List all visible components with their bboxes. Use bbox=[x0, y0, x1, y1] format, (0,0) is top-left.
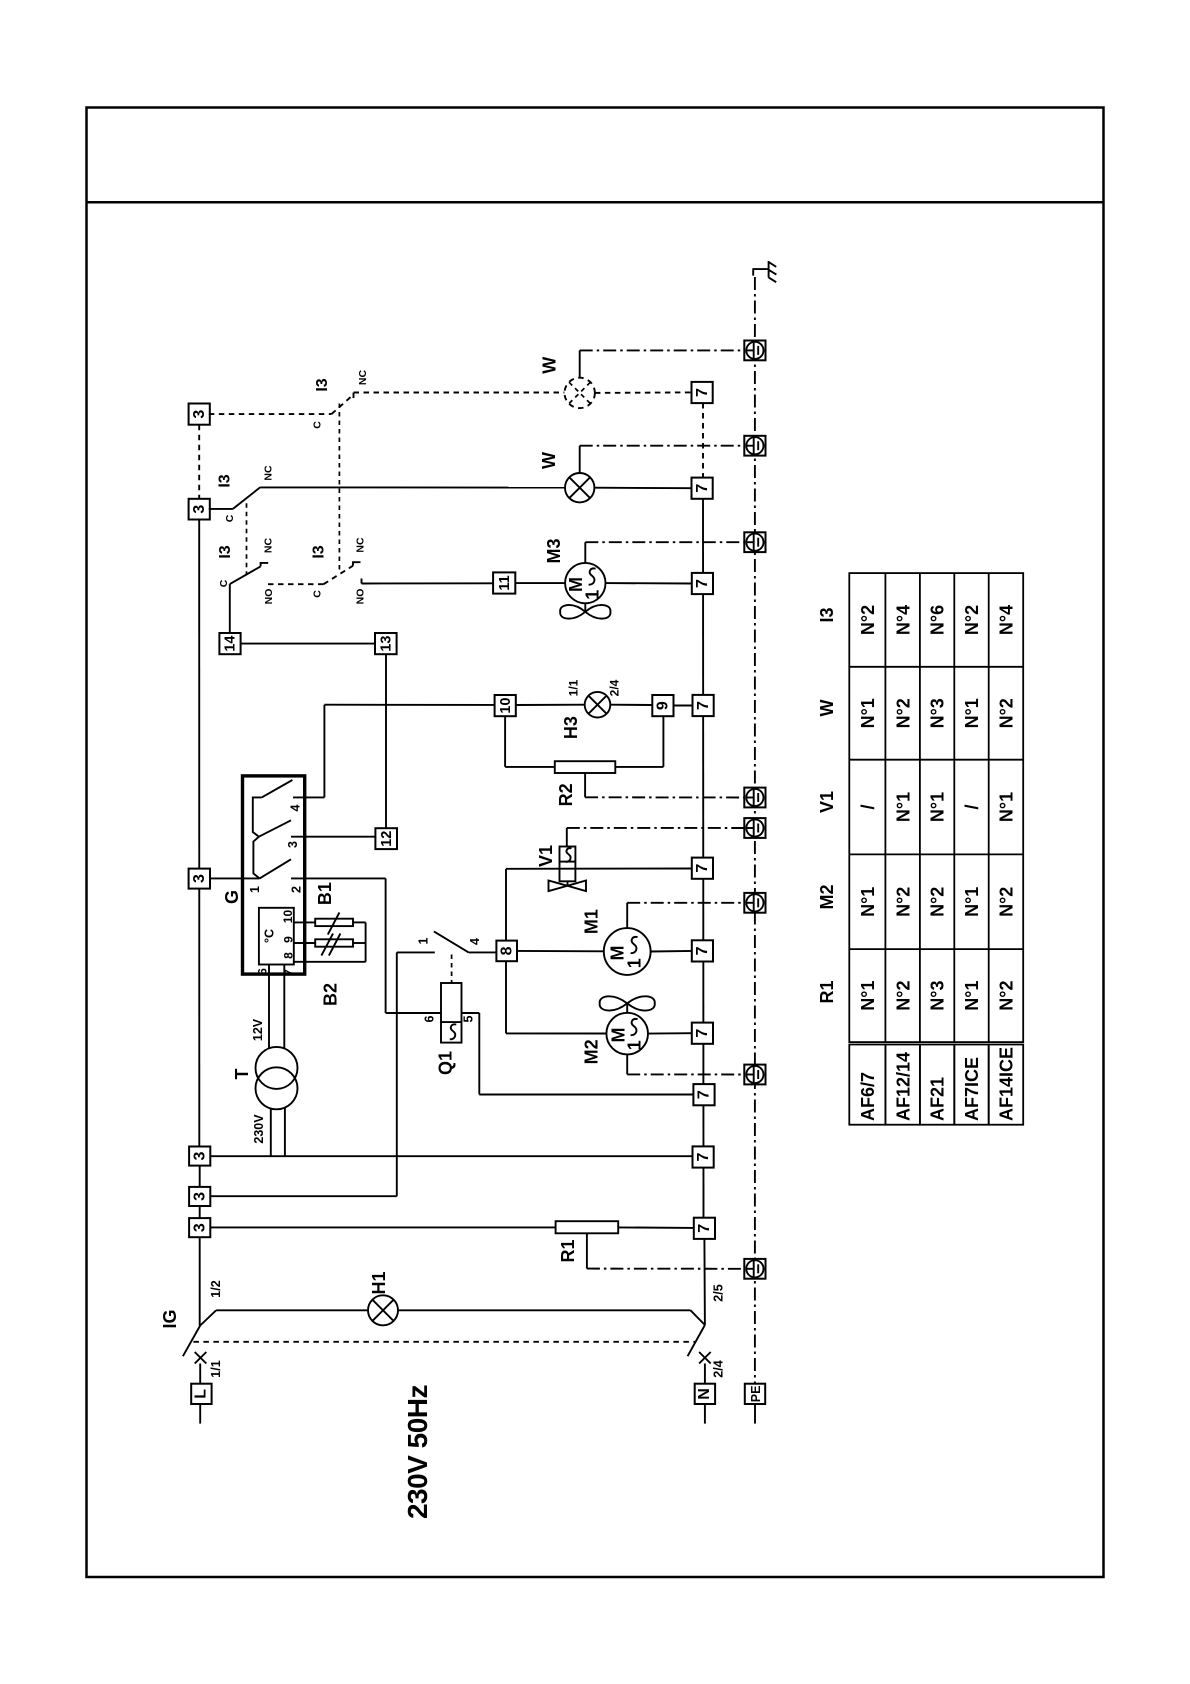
earth terminal b bbox=[744, 436, 765, 456]
svg-text:NC: NC bbox=[263, 538, 275, 554]
wire pin 10 to probe B1 bbox=[294, 921, 315, 923]
svg-text:W: W bbox=[539, 452, 559, 469]
svg-text:C: C bbox=[312, 590, 324, 598]
svg-text:13: 13 bbox=[379, 636, 395, 652]
svg-text:N°1: N°1 bbox=[928, 792, 948, 822]
node 3 box a bbox=[189, 404, 210, 425]
relay Q1 contact lead 1 bbox=[397, 951, 435, 953]
svg-text:I3: I3 bbox=[817, 607, 837, 622]
svg-text:230V 50Hz: 230V 50Hz bbox=[402, 1385, 433, 1519]
svg-text:3: 3 bbox=[191, 1192, 208, 1201]
wire resistor R1 to earth bbox=[587, 1233, 744, 1269]
wire pin 9 to probe B2 bbox=[294, 942, 315, 944]
svg-text:Q1: Q1 bbox=[436, 1051, 456, 1075]
controller G relay contact to pin 2 bbox=[260, 859, 291, 878]
wire relay Q1 pin 5 to node 7 bbox=[462, 1013, 694, 1095]
node 7 box d bbox=[693, 695, 714, 716]
svg-text:1/2: 1/2 bbox=[209, 1280, 223, 1297]
svg-text:C: C bbox=[312, 421, 324, 429]
wire node 13 to node 12 bbox=[385, 654, 387, 828]
wire node3d to transformer and N rail bbox=[210, 1155, 692, 1157]
wire node 10 to resistor R2 bbox=[505, 716, 555, 767]
svg-text:N°3: N°3 bbox=[928, 980, 948, 1010]
node 14 box bbox=[219, 633, 240, 654]
relay Q1 mechanical link bbox=[451, 955, 453, 984]
wire N rail lower segment bbox=[703, 1239, 706, 1325]
valve V1 body bbox=[549, 881, 587, 892]
earth terminal a bbox=[744, 341, 765, 361]
svg-text:3: 3 bbox=[286, 841, 300, 848]
wire resistor R2 to node 9 bbox=[615, 716, 663, 767]
svg-text:11: 11 bbox=[497, 575, 513, 590]
svg-text:2: 2 bbox=[290, 886, 304, 893]
svg-text:N°2: N°2 bbox=[962, 605, 982, 635]
thermostat contact I3 c blade bbox=[230, 566, 261, 584]
svg-text:N°1: N°1 bbox=[962, 980, 982, 1010]
svg-text:NO: NO bbox=[354, 589, 366, 605]
earth terminal g bbox=[744, 1065, 765, 1085]
node 7 box b bbox=[692, 478, 713, 499]
node 8 box bbox=[496, 941, 517, 962]
node 7 box a bbox=[692, 382, 713, 403]
svg-text:N°1: N°1 bbox=[858, 887, 878, 917]
thermostat contact I3 a (dashed) lead C bbox=[209, 413, 332, 415]
svg-text:6: 6 bbox=[423, 1015, 437, 1022]
transformer T bbox=[256, 1047, 298, 1109]
svg-text:N°2: N°2 bbox=[893, 887, 913, 917]
svg-text:9: 9 bbox=[282, 936, 296, 943]
earth terminal e bbox=[744, 818, 765, 838]
lamp W (dashed option) bbox=[565, 378, 595, 408]
svg-text:AF6/7: AF6/7 bbox=[858, 1072, 878, 1121]
wire motor M3 to earth bbox=[585, 542, 744, 563]
switch IG coupling dashed link bbox=[193, 1341, 696, 1343]
table row AF6/7 bbox=[858, 605, 878, 1121]
svg-text:1: 1 bbox=[625, 958, 645, 968]
node 3 box e bbox=[189, 1187, 210, 1206]
table row AF7ICE bbox=[962, 605, 982, 1121]
svg-text:N°2: N°2 bbox=[997, 980, 1017, 1010]
svg-text:1: 1 bbox=[416, 937, 430, 944]
wire node 9 to node 7 bbox=[674, 705, 693, 707]
wire left rail lower segment bbox=[199, 1166, 201, 1326]
svg-text:3: 3 bbox=[191, 1223, 208, 1232]
svg-text:PE: PE bbox=[749, 1386, 763, 1403]
svg-text:C: C bbox=[218, 579, 230, 587]
wire lamp W to node 7 bbox=[594, 487, 691, 490]
svg-text:N°1: N°1 bbox=[997, 792, 1017, 822]
svg-text:M1: M1 bbox=[581, 909, 601, 934]
svg-text:7: 7 bbox=[694, 579, 711, 588]
node 7 box e bbox=[692, 858, 713, 879]
wire lamp W to earth bbox=[580, 446, 745, 473]
switch IG pole 2 contact cross bbox=[699, 1352, 711, 1364]
node 3 box c bbox=[189, 869, 210, 889]
wire controller G pin 6 to transformer bbox=[268, 965, 270, 1049]
wire probe B2 to common bbox=[353, 942, 366, 944]
svg-text:12: 12 bbox=[379, 831, 395, 847]
node 3 box b bbox=[189, 499, 210, 520]
svg-text:NC: NC bbox=[263, 465, 275, 481]
table row AF21 bbox=[928, 605, 948, 1121]
thermostat contact I3 c NC stub bbox=[261, 563, 269, 567]
svg-text:10: 10 bbox=[498, 698, 514, 714]
wire N rail dashed segment bbox=[702, 403, 704, 478]
wire probe B1 to common bbox=[353, 921, 366, 923]
svg-text:1: 1 bbox=[625, 1040, 645, 1050]
svg-text:1/1: 1/1 bbox=[566, 679, 580, 696]
svg-text:8: 8 bbox=[282, 952, 296, 959]
svg-text:2/5: 2/5 bbox=[712, 1284, 726, 1301]
wire node3f to resistor R1 bbox=[210, 1226, 555, 1228]
svg-text:N°6: N°6 bbox=[928, 605, 948, 635]
svg-text:1: 1 bbox=[248, 886, 262, 893]
wire valve V1 to earth bbox=[567, 828, 745, 847]
motor M2 bbox=[606, 1013, 648, 1055]
svg-text:C: C bbox=[224, 514, 236, 522]
terminal PE bbox=[745, 1384, 765, 1424]
wire contact b NC to lamp W bbox=[260, 486, 565, 488]
wire node3c to controller G pin 1 bbox=[210, 877, 260, 879]
wire controller G pin 3 to node 12 bbox=[291, 836, 375, 838]
valve V1 coil bbox=[560, 847, 576, 882]
svg-text:8: 8 bbox=[498, 946, 515, 955]
resistor R2 bbox=[555, 761, 616, 773]
svg-text:3: 3 bbox=[191, 505, 208, 514]
svg-text:N°1: N°1 bbox=[858, 980, 878, 1010]
controller G common link bbox=[253, 797, 262, 878]
variant table grid bbox=[849, 573, 1023, 1042]
node 7 box c bbox=[692, 573, 713, 594]
svg-text:N°1: N°1 bbox=[962, 887, 982, 917]
wire node 14 to node 13 bbox=[241, 643, 375, 645]
switch IG pole 1 blade bbox=[183, 1310, 216, 1356]
wire relay Q1 contact to node 8 bbox=[469, 951, 497, 953]
wire contact c C to node 14 bbox=[229, 584, 231, 633]
wire resistor R1 to node 7 bbox=[618, 1226, 694, 1229]
wire transformer primary left bbox=[270, 1108, 272, 1156]
svg-text:/: / bbox=[962, 804, 982, 809]
svg-text:3: 3 bbox=[191, 874, 208, 883]
lamp H3 bbox=[585, 692, 611, 718]
svg-text:/: / bbox=[858, 804, 878, 809]
svg-text:R1: R1 bbox=[558, 1239, 578, 1262]
wire motor M1 to earth bbox=[627, 903, 744, 928]
lamp W bbox=[565, 473, 594, 502]
earth terminal c bbox=[744, 532, 765, 552]
mechanical link contacts b-c bbox=[246, 503, 248, 574]
svg-text:G: G bbox=[222, 890, 242, 904]
thermostat contact I3 b blade bbox=[233, 487, 260, 509]
svg-text:10: 10 bbox=[281, 910, 295, 924]
svg-text:7: 7 bbox=[694, 946, 711, 955]
svg-text:1/1: 1/1 bbox=[209, 1360, 223, 1377]
svg-text:V1: V1 bbox=[536, 845, 556, 867]
svg-text:M2: M2 bbox=[582, 1039, 602, 1064]
svg-text:5: 5 bbox=[462, 1015, 476, 1022]
wire controller G pin 7 to transformer bbox=[283, 965, 285, 1049]
svg-text:7: 7 bbox=[694, 484, 711, 493]
svg-text:M2: M2 bbox=[817, 884, 837, 909]
wire controller G pin4 to node 10 bbox=[293, 705, 494, 798]
wire left rail dashed segment bbox=[198, 425, 200, 499]
wire resistor R2 to earth bbox=[585, 773, 744, 798]
svg-text:7: 7 bbox=[695, 701, 712, 710]
svg-text:I3: I3 bbox=[310, 545, 327, 558]
svg-text:NC: NC bbox=[354, 537, 366, 553]
wire node 8 to valve V1 branch bbox=[505, 869, 507, 941]
svg-text:1: 1 bbox=[583, 590, 603, 600]
thermostat contact I3 d NC stub bbox=[353, 562, 361, 566]
svg-text:9: 9 bbox=[655, 701, 672, 710]
svg-text:4: 4 bbox=[468, 938, 482, 945]
relay Q1 contact blade bbox=[434, 931, 469, 952]
wire L1 to lamp H1 bbox=[216, 1309, 368, 1311]
node 7 box f bbox=[692, 940, 713, 961]
earth terminal f bbox=[744, 893, 765, 913]
svg-text:7: 7 bbox=[695, 1152, 712, 1161]
controller G relay contact to pin 4 bbox=[262, 780, 293, 797]
thermostat contact I3 a blade bbox=[332, 395, 354, 415]
node 7 box i bbox=[693, 1146, 714, 1167]
svg-text:AF7ICE: AF7ICE bbox=[962, 1057, 982, 1121]
motor M3 fan bbox=[560, 603, 610, 618]
wire node 8 to motor M1 bbox=[517, 950, 604, 952]
svg-text:IG: IG bbox=[160, 1309, 180, 1328]
node 13 box bbox=[375, 633, 397, 654]
wire lamp W dashed to node 7 bbox=[595, 391, 692, 394]
table row AF14ICE bbox=[997, 605, 1017, 1121]
svg-text:3: 3 bbox=[191, 1151, 208, 1160]
wire lamp W dashed to earth bbox=[580, 350, 745, 377]
node 7 box g bbox=[692, 1023, 713, 1044]
svg-text:N°2: N°2 bbox=[893, 698, 913, 728]
thermostat contact I3 d blade (dashed) bbox=[324, 566, 354, 585]
earth terminal d bbox=[744, 788, 765, 808]
svg-text:M3: M3 bbox=[544, 538, 564, 563]
svg-text:7: 7 bbox=[696, 1090, 713, 1099]
wire lamp H3 to node 9 bbox=[610, 704, 652, 706]
svg-text:7: 7 bbox=[696, 1224, 713, 1233]
svg-text:N°2: N°2 bbox=[997, 887, 1017, 917]
svg-text:N°4: N°4 bbox=[997, 605, 1017, 635]
node 10 box bbox=[495, 695, 516, 716]
resistor R1 bbox=[556, 1221, 619, 1233]
svg-text:H3: H3 bbox=[561, 716, 581, 739]
svg-text:AF12/14: AF12/14 bbox=[893, 1052, 913, 1121]
svg-text:N°2: N°2 bbox=[893, 980, 913, 1010]
chassis ground symbol bbox=[753, 261, 777, 282]
svg-text:H1: H1 bbox=[369, 1271, 389, 1294]
node 11 box bbox=[493, 572, 515, 593]
wire node 11 to motor M3 bbox=[515, 582, 565, 584]
controller G outline bbox=[243, 776, 305, 974]
svg-text:N°1: N°1 bbox=[893, 792, 913, 822]
thermostat contact I3 b lead C bbox=[209, 508, 233, 510]
wire PE rail bbox=[754, 277, 756, 1384]
wire contact a NC to lamp W dashed bbox=[354, 392, 565, 394]
svg-text:N°2: N°2 bbox=[858, 605, 878, 635]
svg-text:NC: NC bbox=[357, 370, 369, 386]
wire contact c NO to contact d C (dashed) bbox=[268, 583, 324, 585]
mechanical link contacts a-d bbox=[338, 404, 340, 573]
switch IG pole 1 contact cross bbox=[195, 1352, 207, 1364]
svg-text:AF21: AF21 bbox=[928, 1077, 948, 1121]
wire transformer primary right bbox=[284, 1108, 286, 1157]
svg-text:I3: I3 bbox=[217, 545, 234, 558]
node 12 box bbox=[375, 828, 397, 849]
svg-text:2/4: 2/4 bbox=[712, 1360, 726, 1377]
thermostat contact I3 a NC stub bbox=[353, 393, 355, 398]
wire lamp H1 to switch IG pole 2 bbox=[398, 1309, 691, 1311]
svg-text:R1: R1 bbox=[817, 980, 837, 1003]
relay Q1 coil bbox=[441, 983, 462, 1043]
wire node 10 to lamp H3 bbox=[516, 704, 585, 706]
svg-text:T: T bbox=[232, 1069, 252, 1080]
node 3 box d bbox=[189, 1147, 210, 1166]
svg-text:6: 6 bbox=[256, 968, 270, 975]
svg-text:N°2: N°2 bbox=[997, 698, 1017, 728]
node 7 box h bbox=[693, 1084, 714, 1105]
motor M2 fan bbox=[600, 996, 655, 1013]
svg-text:3: 3 bbox=[191, 410, 208, 419]
svg-text:7: 7 bbox=[694, 1029, 711, 1038]
node 3 box f bbox=[189, 1218, 210, 1237]
svg-text:NO: NO bbox=[263, 589, 275, 605]
controller G relay contact to pin 3 bbox=[259, 820, 291, 836]
switch IG pole 2 blade bbox=[688, 1310, 705, 1356]
wire probe common to pin 8 bbox=[294, 922, 366, 961]
svg-text:B1: B1 bbox=[315, 882, 335, 905]
svg-text:L: L bbox=[192, 1389, 209, 1399]
svg-text:14: 14 bbox=[223, 636, 239, 652]
wire motor M2 to earth bbox=[627, 1054, 744, 1074]
motor M3 bbox=[565, 563, 605, 603]
earth terminal h bbox=[744, 1259, 765, 1279]
wire left rail solid segment bbox=[198, 520, 200, 1147]
svg-text:N°1: N°1 bbox=[858, 698, 878, 728]
wire node 8 to motor M2 bbox=[506, 961, 606, 1033]
svg-text:2/4: 2/4 bbox=[607, 679, 621, 696]
svg-text:AF14ICE: AF14ICE bbox=[997, 1047, 1017, 1121]
node 7 box j bbox=[694, 1218, 715, 1239]
wire motor M3 to node 7 bbox=[606, 582, 692, 584]
svg-text:N°4: N°4 bbox=[893, 605, 913, 635]
svg-text:7: 7 bbox=[694, 388, 711, 397]
svg-text:I3: I3 bbox=[216, 474, 233, 487]
lamp H1 bbox=[368, 1295, 398, 1325]
terminal N bbox=[695, 1364, 715, 1424]
svg-text:230V: 230V bbox=[252, 1114, 266, 1144]
svg-text:V1: V1 bbox=[817, 791, 837, 813]
drawing border frame bbox=[87, 108, 1104, 1578]
wire node3e to relay Q1 contact bbox=[210, 952, 396, 1196]
svg-text:°C: °C bbox=[263, 929, 277, 943]
svg-text:N°2: N°2 bbox=[928, 887, 948, 917]
svg-text:W: W bbox=[539, 357, 559, 374]
svg-text:N: N bbox=[696, 1388, 713, 1400]
probe B2 bbox=[315, 934, 353, 956]
wire valve V1 feed bbox=[506, 868, 693, 870]
probe B1 bbox=[315, 913, 353, 935]
svg-text:N°1: N°1 bbox=[962, 698, 982, 728]
motor M1 bbox=[604, 928, 651, 975]
wire motor M1 to node 7 bbox=[651, 950, 693, 953]
table row AF12/14 bbox=[893, 605, 913, 1121]
node 9 box bbox=[652, 695, 673, 716]
variant table model boxes bbox=[849, 1045, 1023, 1125]
svg-text:7: 7 bbox=[694, 864, 711, 873]
wire controller G pin 2 to relay Q1 coil bbox=[291, 878, 441, 1013]
svg-text:4: 4 bbox=[289, 804, 303, 811]
wire N rail solid segment bbox=[702, 499, 705, 1218]
svg-text:N°3: N°3 bbox=[928, 698, 948, 728]
terminal L bbox=[191, 1364, 211, 1424]
svg-text:B2: B2 bbox=[321, 983, 341, 1006]
wire motor M2 to node 7 bbox=[648, 1032, 693, 1034]
svg-text:W: W bbox=[817, 700, 837, 717]
svg-text:I3: I3 bbox=[314, 378, 331, 391]
controller G thermometer box bbox=[259, 908, 294, 965]
svg-text:12V: 12V bbox=[251, 1018, 265, 1041]
wire contact d NO to node 11 bbox=[362, 579, 494, 584]
svg-text:R2: R2 bbox=[556, 783, 576, 806]
